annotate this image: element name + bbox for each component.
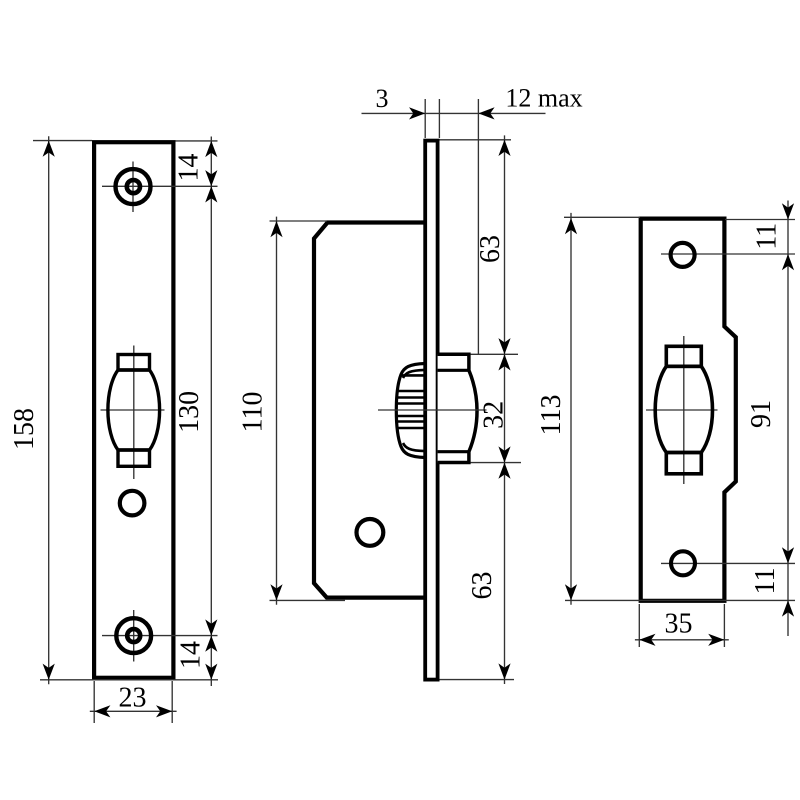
extension line 35 right bbox=[723, 604, 725, 647]
dim line 3 / 12max bbox=[362, 112, 546, 114]
svg-text:11: 11 bbox=[752, 223, 783, 250]
svg-text:14: 14 bbox=[175, 641, 206, 669]
extension line bolt tip bbox=[477, 99, 479, 355]
svg-text:32: 32 bbox=[478, 401, 509, 429]
dim line 11/91/11 bbox=[787, 201, 789, 637]
follower knob behind plate bbox=[394, 364, 426, 458]
dim line 63/32/63 bbox=[504, 135, 506, 684]
extension line bottom full bbox=[40, 679, 218, 681]
svg-text:113: 113 bbox=[536, 395, 567, 436]
latch cutout barrel bbox=[655, 366, 712, 452]
svg-text:110: 110 bbox=[238, 392, 269, 433]
top screw hole centerline / extension to dim line bbox=[102, 185, 218, 187]
strike plate outline bbox=[641, 219, 736, 601]
bottom screw hole crosshair vertical bbox=[133, 610, 135, 662]
dim line 23 bbox=[90, 710, 177, 712]
svg-text:35: 35 bbox=[665, 608, 693, 639]
svg-text:3: 3 bbox=[376, 84, 389, 113]
extension line 113 top bbox=[564, 216, 640, 218]
extension line top right bbox=[176, 140, 218, 142]
dim line 158 bbox=[48, 136, 50, 684]
extension line 35 left bbox=[638, 604, 640, 647]
bolt flange line bottom bbox=[438, 450, 469, 453]
dim line 14/130/14 bbox=[210, 137, 212, 687]
svg-text:12 max: 12 max bbox=[505, 84, 582, 113]
lock case body bbox=[314, 223, 425, 598]
svg-text:158: 158 bbox=[9, 408, 40, 450]
latch cutout centerline horizontal bbox=[646, 409, 718, 411]
extension line 110 top bbox=[270, 220, 328, 222]
svg-text:63: 63 bbox=[467, 572, 498, 600]
extension line bottom full bbox=[565, 599, 795, 601]
svg-text:14: 14 bbox=[174, 154, 205, 182]
extension line faceplate right top bbox=[438, 99, 440, 138]
extension line 23 left bbox=[93, 681, 95, 723]
bottom screw hole countersink bbox=[116, 618, 151, 653]
dim line 35 bbox=[635, 639, 729, 641]
extension line plate top right bbox=[725, 219, 795, 221]
top hole bbox=[671, 243, 695, 267]
extension line 63 bottom (faceplate bottom) bbox=[440, 679, 515, 681]
svg-text:91: 91 bbox=[746, 400, 777, 428]
case fixing hole bbox=[357, 519, 384, 546]
extension line 110 bottom bbox=[270, 599, 346, 601]
spindle cutout centerline vertical bbox=[133, 346, 135, 480]
extension line 23 right bbox=[171, 681, 173, 723]
top screw hole crosshair vertical bbox=[132, 162, 134, 213]
bolt protruding bbox=[438, 354, 477, 462]
spindle cutout top rectangle bbox=[118, 355, 150, 371]
faceplate side view bbox=[425, 141, 437, 680]
top hole centerline bbox=[661, 253, 795, 255]
extension line bolt top bbox=[471, 353, 519, 355]
svg-text:63: 63 bbox=[475, 235, 506, 263]
spindle cutout bottom rectangle bbox=[118, 450, 150, 466]
latch cutout top rectangle bbox=[666, 346, 701, 366]
knob grooves bbox=[394, 370, 426, 451]
svg-text:23: 23 bbox=[119, 682, 147, 713]
top screw hole countersink bbox=[116, 169, 151, 204]
dim line 113 bbox=[570, 213, 572, 605]
svg-text:130: 130 bbox=[174, 391, 205, 433]
spindle cutout centerline horizontal bbox=[101, 409, 165, 411]
bolt flange line top bbox=[438, 369, 469, 372]
extension line bolt bottom bbox=[471, 462, 522, 464]
bottom hole centerline bbox=[661, 562, 795, 564]
svg-text:11: 11 bbox=[750, 568, 781, 595]
extension line faceplate left top bbox=[424, 99, 426, 138]
spindle cutout barrel bbox=[108, 370, 160, 450]
latch cutout centerline vertical bbox=[683, 336, 685, 484]
bottom screw hole bore bbox=[127, 629, 140, 642]
faceplate outline bbox=[94, 142, 173, 678]
cylinder fixing hole bbox=[120, 491, 145, 516]
bottom hole bbox=[671, 551, 695, 575]
dim line 110 bbox=[276, 217, 278, 605]
extension line top left bbox=[33, 140, 92, 142]
latch cutout bottom rectangle bbox=[666, 453, 701, 474]
top screw hole bore bbox=[127, 180, 140, 193]
bolt centerline bbox=[378, 409, 487, 411]
extension line 63 top (faceplate top) bbox=[440, 139, 512, 141]
bottom screw hole centerline / extension to dim line bbox=[102, 635, 218, 637]
